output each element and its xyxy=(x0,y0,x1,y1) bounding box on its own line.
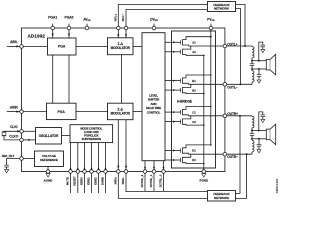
node AR xyxy=(251,130,253,132)
svg-text:NFR−: NFR− xyxy=(121,176,125,184)
pin CLKO xyxy=(22,139,36,141)
pin PGA0 xyxy=(67,26,71,30)
wire PGA-R to SD-R xyxy=(76,111,108,113)
sigma-delta modulator (right) xyxy=(108,103,134,120)
oscillator xyxy=(36,128,62,145)
pin MUTE xyxy=(70,143,72,170)
PGA (left channel) xyxy=(48,38,77,55)
differential capacitor xyxy=(251,131,253,134)
level shifter and dead time control xyxy=(142,33,165,161)
wire voltage reference to AGND xyxy=(47,167,49,170)
wire feedback bottom to OUTR- xyxy=(236,154,247,198)
svg-text:PGND: PGND xyxy=(199,179,209,183)
svg-text:A2: A2 xyxy=(192,50,196,54)
mode control logic box xyxy=(70,125,113,143)
svg-text:ERR2: ERR2 xyxy=(93,177,97,185)
differential capacitor xyxy=(251,61,253,64)
feedback network (top) xyxy=(208,2,236,12)
inductor LR2 xyxy=(251,139,253,141)
pin NFR- xyxy=(124,170,128,174)
wire AINL to PGA xyxy=(22,45,48,47)
junction PVDD entry xyxy=(210,36,212,38)
voltage reference xyxy=(35,151,64,167)
svg-text:OSCILLATOR: OSCILLATOR xyxy=(39,134,59,138)
pin DCTRL_2 xyxy=(144,161,146,170)
pin DGND xyxy=(105,143,107,170)
svg-text:CLKI: CLKI xyxy=(10,125,18,129)
svg-text:DCTRL_2: DCTRL_2 xyxy=(140,174,144,187)
capacitor to ground (lower) xyxy=(258,138,260,140)
svg-text:NFL+: NFL+ xyxy=(113,13,117,21)
node BR xyxy=(251,138,253,140)
H-bridge box xyxy=(172,31,216,168)
wire node BR to speaker xyxy=(252,138,266,140)
capacitor to ground (upper) xyxy=(258,60,260,62)
pin OUTL- xyxy=(223,83,227,87)
wire OUTL+ external xyxy=(227,45,252,47)
svg-text:A1: A1 xyxy=(192,41,196,45)
wire OUTR+ external xyxy=(227,115,252,117)
wire OUTL- external xyxy=(227,83,252,85)
svg-text:C2: C2 xyxy=(192,120,196,124)
svg-text:SUPPRESSION: SUPPRESSION xyxy=(82,137,101,141)
svg-text:PGA: PGA xyxy=(58,110,66,114)
capacitor on REF_FILT xyxy=(7,159,20,165)
inductor LL2 xyxy=(251,69,253,71)
svg-text:RESET: RESET xyxy=(73,176,77,186)
svg-text:PGA0: PGA0 xyxy=(65,15,74,19)
PGA (right channel) xyxy=(47,103,77,119)
inductor LL1 xyxy=(252,47,254,59)
svg-text:REF_FILT: REF_FILT xyxy=(2,154,15,158)
sigma-delta modulator (left) xyxy=(108,38,134,55)
pin PVDD xyxy=(209,26,213,30)
pin AVDD xyxy=(85,26,89,30)
svg-text:04640-0-001: 04640-0-001 xyxy=(276,178,279,193)
svg-text:D1: D1 xyxy=(192,149,196,153)
wire output node B xyxy=(188,83,225,85)
svg-text:AINL: AINL xyxy=(10,40,17,44)
svg-text:PGA1: PGA1 xyxy=(48,15,57,19)
wire node AR to speaker xyxy=(252,130,266,132)
wire PGA-L to SD-L xyxy=(76,45,108,47)
wire AINR to PGA-R xyxy=(22,111,47,113)
capacitor to ground (upper) xyxy=(258,130,260,132)
crystal on CLKI/CLKO xyxy=(4,130,20,132)
svg-text:CONTROL: CONTROL xyxy=(147,110,161,114)
pin AINR xyxy=(7,111,20,113)
wire NFR- from bottom into SD-R xyxy=(125,120,127,170)
transistor A1 xyxy=(165,41,180,43)
pin ERR1 xyxy=(91,143,93,170)
svg-text:DCTRL_0: DCTRL_0 xyxy=(158,174,162,187)
wire PGA0 select bus xyxy=(68,30,70,103)
node AL xyxy=(251,60,253,62)
svg-text:NETWORK: NETWORK xyxy=(214,7,230,11)
transistor C1 xyxy=(165,111,180,113)
pin DCTRL_0 xyxy=(163,161,165,170)
wire node BL to speaker xyxy=(252,68,266,70)
speaker R xyxy=(266,129,270,140)
wire oscillator to mode control xyxy=(62,135,71,137)
svg-text:AGND: AGND xyxy=(44,179,54,183)
pin RESET xyxy=(77,143,79,170)
transistor B2 xyxy=(165,89,180,91)
wire feedback top to OUTL- xyxy=(236,9,241,85)
pin ERR0 xyxy=(84,143,86,170)
svg-text:H-BRIDGE: H-BRIDGE xyxy=(177,100,192,104)
pin CLKI xyxy=(22,130,36,132)
wire feedback bottom to OUTR+ xyxy=(236,116,241,194)
capacitor to ground (lower) xyxy=(258,68,260,70)
pin AINL xyxy=(7,45,20,47)
svg-text:REFERENCE: REFERENCE xyxy=(40,158,58,162)
pin ERR2 xyxy=(98,143,100,170)
svg-text:MODULATOR: MODULATOR xyxy=(111,46,131,50)
node BL xyxy=(251,68,253,70)
svg-text:DGND: DGND xyxy=(100,177,104,185)
wire feedback top to OUTL+ xyxy=(236,5,246,47)
svg-text:OUTL−: OUTL− xyxy=(227,85,237,89)
inductor LR1 xyxy=(252,116,254,128)
transistor A2 xyxy=(165,51,180,53)
wire SD-L to level shifter xyxy=(133,45,142,47)
wire node AL to speaker xyxy=(252,60,266,62)
wire output node D xyxy=(188,153,225,155)
wire NFL- into SD-L xyxy=(125,30,127,38)
pin OUTR+ xyxy=(223,114,227,118)
transistor C2 xyxy=(165,121,180,123)
wire NFL+ into SD-L xyxy=(117,30,119,38)
svg-text:ERR0: ERR0 xyxy=(79,177,83,185)
svg-text:NFR+: NFR+ xyxy=(113,176,117,184)
svg-text:D2: D2 xyxy=(192,158,196,162)
chip boundary AD1992 xyxy=(22,28,225,172)
svg-text:ERR1: ERR1 xyxy=(86,177,90,185)
wire REF_FILT to voltage reference xyxy=(22,158,35,160)
svg-text:AINR: AINR xyxy=(10,105,18,109)
pin PGND xyxy=(203,168,205,170)
pin OUTR- xyxy=(223,152,227,156)
svg-text:B2: B2 xyxy=(192,88,196,92)
svg-text:OUTR−: OUTR− xyxy=(227,155,238,159)
svg-text:DCTRL_1: DCTRL_1 xyxy=(149,174,153,187)
pin AGND xyxy=(46,170,50,174)
pin DCTRL_1 xyxy=(153,161,155,170)
svg-text:NETWORK: NETWORK xyxy=(214,196,230,200)
svg-text:MODULATOR: MODULATOR xyxy=(111,111,131,115)
wire NFR+ from bottom into SD-R xyxy=(117,120,119,170)
pin NFR+ xyxy=(117,170,121,174)
svg-text:NFL−: NFL− xyxy=(121,13,125,21)
wire SD-R to level shifter xyxy=(133,111,142,113)
pin REF_FILT xyxy=(20,157,24,161)
speaker L xyxy=(266,59,270,70)
svg-text:CLKO: CLKO xyxy=(9,134,19,138)
PGND rail xyxy=(203,55,205,169)
transistor B1 xyxy=(165,80,180,82)
pin DVDD xyxy=(152,26,156,30)
svg-text:MUTE: MUTE xyxy=(65,177,69,185)
wire OUTR- external xyxy=(227,153,252,155)
pin OUTL+ xyxy=(223,44,227,48)
svg-text:PGA: PGA xyxy=(58,45,66,49)
svg-text:B1: B1 xyxy=(192,79,196,83)
PVDD rail xyxy=(210,30,212,145)
wire PGA1 select bus through both PGAs xyxy=(52,30,54,103)
wire SD-L to SD-R clock link xyxy=(121,55,123,103)
wire output node C xyxy=(188,115,225,117)
transistor D2 xyxy=(165,159,180,161)
pin NFL+ xyxy=(117,26,121,30)
svg-text:C1: C1 xyxy=(192,110,196,114)
svg-text:AD1992: AD1992 xyxy=(27,33,45,38)
feedback network (bottom) xyxy=(208,191,236,202)
wire output node A xyxy=(188,45,225,47)
pin PGA1 xyxy=(51,26,55,30)
transistor D1 xyxy=(165,150,180,152)
pin NFL- xyxy=(124,26,128,30)
